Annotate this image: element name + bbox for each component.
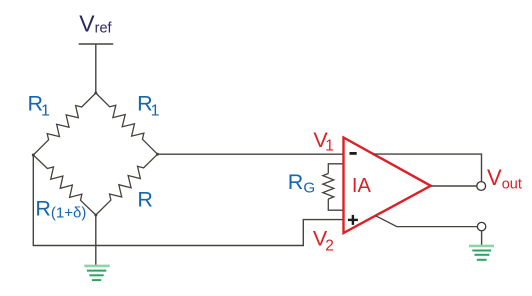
resistor R(1+d) bottom-left — [33, 155, 96, 215]
svg-text:IA: IA — [352, 175, 372, 197]
wire right node to minus input — [158, 153, 343, 155]
RG bottom stub — [328, 199, 342, 210]
wire Vref to bridge top — [95, 44, 97, 93]
node left junction dot — [32, 154, 35, 157]
wire rail up to V2 — [302, 220, 304, 247]
wire output vertex to Vout terminal — [431, 185, 477, 187]
svg-text:R: R — [137, 188, 153, 212]
svg-text:Vout: Vout — [487, 165, 522, 192]
svg-text:Vref: Vref — [79, 10, 112, 36]
svg-text:RG: RG — [288, 170, 315, 196]
svg-text:R(1+δ): R(1+δ) — [35, 197, 86, 222]
Vref terminal bar — [79, 43, 114, 45]
wire reference from bottom edge — [376, 216, 478, 227]
wire bottom node to ground — [95, 215, 97, 266]
minus input sign — [350, 152, 357, 155]
terminal Vout circle — [477, 182, 486, 191]
plus input sign — [348, 215, 358, 225]
wire left node down — [32, 155, 34, 246]
node top junction dot — [94, 92, 97, 95]
node bottom junction dot — [94, 214, 97, 217]
svg-text:R1: R1 — [137, 92, 160, 120]
wire sense line from top edge to Vout — [374, 154, 482, 182]
wire bottom rail — [33, 245, 304, 247]
RG top stub — [328, 164, 342, 174]
op-amp IA triangle — [344, 138, 431, 234]
svg-text:R1: R1 — [28, 91, 51, 119]
wire V2 to plus input — [303, 219, 343, 221]
svg-text:V2: V2 — [313, 226, 334, 254]
resistor R1 top-right — [96, 93, 158, 154]
terminal reference circle — [477, 222, 485, 230]
ground (bridge) — [84, 266, 109, 280]
svg-text:V1: V1 — [313, 128, 333, 155]
node right junction dot — [156, 153, 159, 156]
resistor RG zigzag — [323, 174, 334, 200]
ground (reference) — [469, 246, 494, 260]
resistor R bottom-right — [96, 154, 158, 215]
wire reference circle to ground — [481, 231, 483, 246]
resistor R1 top-left — [33, 93, 96, 155]
